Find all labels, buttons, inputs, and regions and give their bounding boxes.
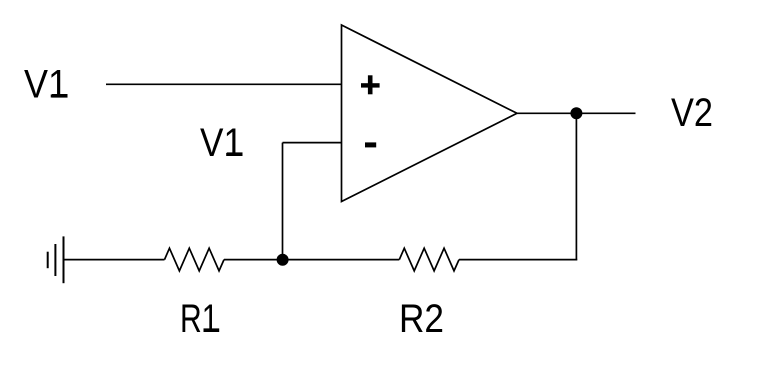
wire feedback right vertical <box>575 113 577 260</box>
op-amp U1 <box>342 25 518 202</box>
wire ground to R1 <box>64 259 165 261</box>
svg-text:R1: R1 <box>180 297 219 341</box>
node junction R1/R2/feedback <box>277 254 289 266</box>
ground <box>48 236 64 283</box>
resistor R1 <box>165 248 225 271</box>
svg-text:R2: R2 <box>399 297 444 341</box>
wire R1 to R2 <box>224 259 399 261</box>
label V1 input <box>24 63 68 107</box>
wire V1 to + input <box>106 83 342 85</box>
wire feedback left vertical <box>282 143 284 260</box>
wire - input horizontal <box>283 142 342 144</box>
wire op-amp output <box>517 112 636 114</box>
svg-text:V1: V1 <box>200 121 243 165</box>
op-amp pin + (non-inverting) <box>361 75 380 94</box>
resistor R2 <box>399 248 459 271</box>
svg-text:V2: V2 <box>671 91 713 135</box>
node output <box>570 107 582 119</box>
svg-text:V1: V1 <box>24 63 68 107</box>
label V1 inverting node <box>200 121 243 165</box>
op-amp pin - (inverting) <box>365 142 376 147</box>
wire R2 to output corner <box>459 259 577 261</box>
label R1 <box>180 297 219 341</box>
